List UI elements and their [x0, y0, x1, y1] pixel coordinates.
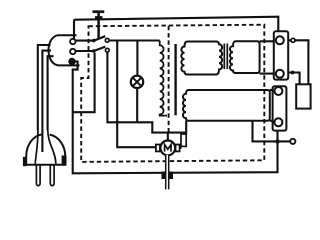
- cord wire A: [38, 45, 51, 130]
- terminal block 2: [273, 86, 287, 130]
- terminal block 1: [274, 31, 288, 79]
- dashed enclosure border: [81, 25, 264, 162]
- plug prong left: [36, 166, 40, 186]
- lamp bottom lead: [136, 88, 138, 122]
- transformer winding box2: [230, 41, 260, 73]
- transformer tall winding (primary): [160, 41, 167, 116]
- lamp: [131, 76, 143, 88]
- wire branch to motor left: [117, 41, 156, 148]
- terminal dot top right (open): [291, 38, 295, 42]
- motor top lead: [167, 133, 169, 141]
- plug prong right: [50, 166, 54, 186]
- plug side contact right (filled): [62, 156, 67, 166]
- wire from mid terminal to resistor: [288, 73, 299, 85]
- motor shaft: [166, 155, 169, 190]
- switch pole 2 pivot: [92, 49, 96, 53]
- transformer core bars upper: [223, 44, 225, 70]
- wire mains top line: [74, 17, 278, 39]
- wire pole1 contact to winding: [109, 39, 160, 41]
- wire pole2 contact down and across: [107, 52, 186, 133]
- connector pin 2: [70, 49, 75, 54]
- connector shell: [49, 35, 80, 65]
- connector pin 3 (earth, filled): [69, 59, 75, 65]
- motor tab left: [156, 145, 160, 152]
- wire lower box to block2: [270, 89, 274, 91]
- wire box2 to block1 top: [260, 40, 274, 42]
- transformer winding box1: [181, 42, 222, 75]
- resistor R1: [296, 84, 310, 108]
- terminal dot mid right (filled): [291, 71, 295, 75]
- motor M: [160, 141, 175, 156]
- wire pin1 to switch pole1: [76, 40, 93, 42]
- wire pin2 to switch pole2: [76, 50, 93, 52]
- cord wire B: [42, 51, 51, 152]
- dashed linkage line motor to top: [168, 26, 170, 132]
- lamp top lead: [136, 41, 138, 76]
- wire capacitor box up to secondary line: [185, 121, 187, 134]
- wire branch to switch pivot2: [73, 53, 95, 112]
- wire tab to capacitor box: [180, 147, 182, 149]
- connector pin 1: [70, 39, 75, 44]
- plug body: [26, 130, 67, 166]
- junction dot: [275, 139, 279, 143]
- wire from top terminal to resistor: [288, 40, 308, 84]
- wire box2 to block1 bottom: [260, 73, 274, 75]
- switch pole 2 blade: [94, 47, 106, 51]
- switch pole 2 contact: [105, 48, 109, 52]
- motor shaft collar: [162, 172, 174, 180]
- capacitor C1: [93, 12, 105, 39]
- plug side contact left (filled): [23, 157, 27, 166]
- lower winding box: [183, 90, 270, 121]
- wire branch to junction: [253, 121, 291, 142]
- switch pole 1 pivot: [92, 39, 96, 43]
- motor capacitor box: [181, 134, 186, 146]
- wire pin3 route to bottom line: [73, 62, 278, 174]
- terminal circle bottom right: [290, 139, 295, 144]
- motor tab right: [176, 145, 180, 152]
- switch pole 1 blade: [94, 36, 106, 40]
- switch pole 1 contact: [105, 38, 109, 42]
- transformer core bar lower: [174, 44, 176, 115]
- cord wire C: [48, 56, 54, 130]
